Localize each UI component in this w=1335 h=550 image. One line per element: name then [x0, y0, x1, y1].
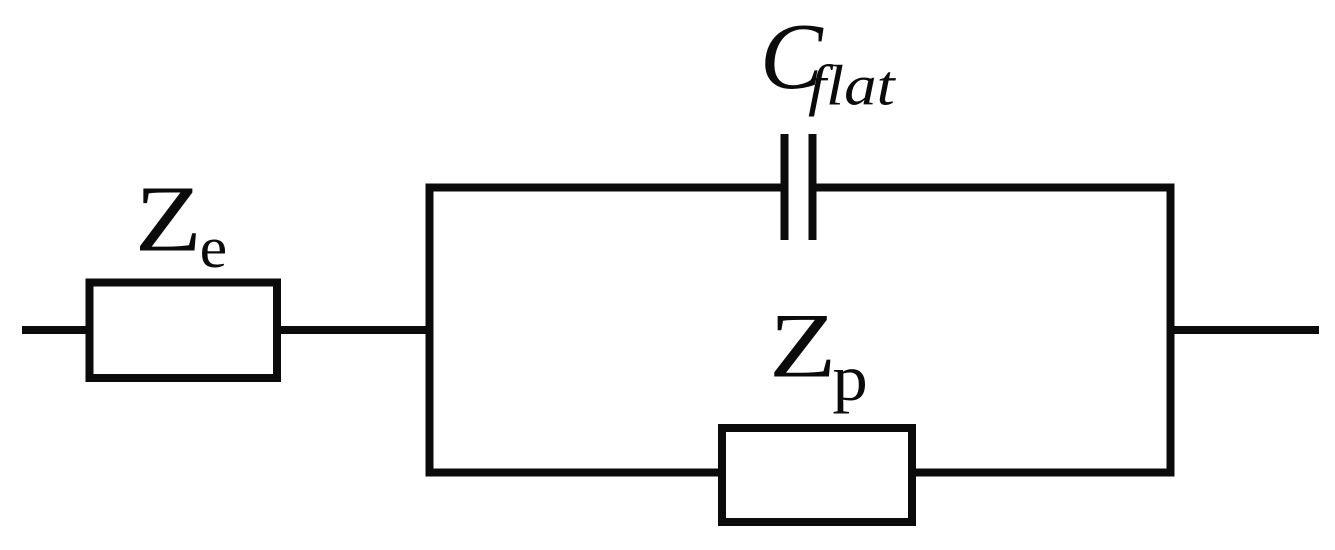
label Zp — [769, 294, 836, 396]
capacitor Cflat right plate — [809, 134, 817, 240]
svg-text:e: e — [200, 215, 228, 280]
svg-text:flat: flat — [808, 55, 897, 117]
label Cflat — [760, 5, 824, 109]
label Ze — [135, 168, 202, 272]
svg-text:p: p — [832, 341, 867, 414]
wire Ze to node A — [277, 326, 430, 334]
resistor Ze box — [90, 283, 278, 379]
svg-text:Z: Z — [135, 168, 202, 272]
wire bottom left to Zp — [426, 469, 723, 477]
node B right vertical of parallel loop — [1167, 184, 1175, 477]
wire output right — [1171, 326, 1320, 334]
capacitor Cflat left plate — [781, 134, 789, 240]
wire top left to capacitor — [426, 184, 782, 192]
wire Zp to bottom right — [912, 469, 1175, 477]
resistor Zp box — [722, 428, 912, 522]
svg-text:Z: Z — [769, 294, 836, 396]
node A left vertical of parallel loop — [426, 184, 434, 477]
wire input left — [22, 326, 90, 334]
wire capacitor to top right — [816, 184, 1175, 192]
